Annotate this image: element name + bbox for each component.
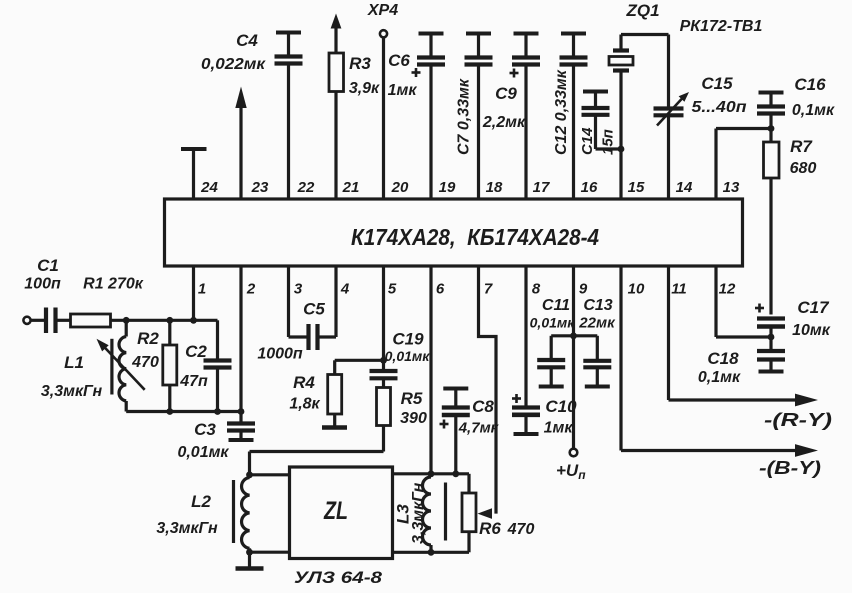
svg-text:22: 22 <box>297 179 315 196</box>
svg-text:2,2мк: 2,2мк <box>482 114 526 131</box>
C6 value label <box>388 51 418 99</box>
svg-text:С17: С17 <box>797 298 830 317</box>
svg-text:0,1мк: 0,1мк <box>698 369 741 386</box>
terminal bar on pin 24 <box>181 147 207 151</box>
C17 value label <box>792 298 831 339</box>
svg-text:47п: 47п <box>179 373 208 390</box>
svg-text:R1 270к: R1 270к <box>83 276 144 293</box>
svg-text:R6: R6 <box>479 519 501 538</box>
capacitor C17 (electrolytic) <box>755 304 785 338</box>
inductor L1 (tunable) <box>97 320 145 411</box>
pin 13 wire <box>716 129 771 200</box>
pin 12 wire <box>716 266 771 337</box>
wire tank top rail <box>111 319 218 322</box>
wire L2 top to ZL <box>250 473 290 476</box>
svg-text:0,01мк: 0,01мк <box>385 348 431 364</box>
inductor L2 <box>234 475 250 552</box>
pin 10 wire / output -(B-Y) <box>621 266 821 478</box>
pin 23 wire with arrow <box>235 87 246 200</box>
svg-text:1мк: 1мк <box>388 82 418 99</box>
pin 6 wire <box>429 266 432 474</box>
ground R4 <box>322 425 347 430</box>
capacitor C18 <box>757 337 785 372</box>
capacitor C11 <box>537 336 565 387</box>
svg-text:1000п: 1000п <box>257 346 303 363</box>
node L3 bottom <box>428 549 435 556</box>
svg-text:470: 470 <box>131 354 159 371</box>
svg-text:R3: R3 <box>349 54 371 73</box>
wire junction to R4 <box>335 360 384 374</box>
C14 value label (vertical) <box>579 127 617 155</box>
svg-text:2: 2 <box>246 281 256 298</box>
svg-text:ХР4: ХР4 <box>367 2 398 19</box>
C11 value label <box>530 297 576 331</box>
power terminal +Un <box>556 449 586 482</box>
node L2 top <box>246 471 253 478</box>
svg-text:12: 12 <box>719 281 736 298</box>
op-amp U1 IC body К174ХА28 <box>165 199 743 266</box>
capacitor C15 (variable) <box>654 35 690 200</box>
svg-text:390: 390 <box>400 410 427 427</box>
svg-text:0,01мк: 0,01мк <box>530 315 576 331</box>
svg-text:22мк: 22мк <box>578 315 616 332</box>
crystal ZQ1 <box>609 35 633 200</box>
svg-text:3,3мкГн: 3,3мкГн <box>156 520 218 537</box>
capacitor C3 <box>227 424 255 441</box>
svg-text:-(B-Y): -(B-Y) <box>759 458 821 478</box>
svg-text:5: 5 <box>388 281 397 298</box>
capacitor C7 <box>465 34 493 200</box>
pin 1 wire <box>192 266 195 320</box>
svg-text:С7 0,33мк: С7 0,33мк <box>456 78 473 155</box>
resistor R5 <box>377 378 391 425</box>
capacitor C9 (electrolytic) <box>510 34 541 200</box>
pin 22 wire <box>287 64 290 200</box>
resistor R2 <box>163 320 177 411</box>
svg-text:R5: R5 <box>401 389 423 408</box>
svg-text:3,9к: 3,9к <box>349 80 380 97</box>
pin 3 wire <box>289 266 309 337</box>
node L1 top <box>123 317 130 324</box>
pin 4 wire <box>318 266 337 337</box>
svg-text:С13: С13 <box>583 297 612 314</box>
wire L2 bottom to ZL <box>250 551 290 554</box>
wire C14 to pin 15 <box>596 147 622 150</box>
R5 value label <box>400 389 427 427</box>
C9 value label <box>482 84 526 131</box>
node C2 bottom <box>214 408 221 415</box>
svg-text:С16: С16 <box>794 75 826 94</box>
resistor R4 <box>328 375 342 427</box>
C3 value label <box>177 420 229 461</box>
node pin 9 / C11 / C13 <box>570 332 577 339</box>
svg-text:С2: С2 <box>185 342 207 361</box>
wire input to C1 <box>31 319 46 322</box>
L2 value label <box>156 492 218 537</box>
capacitor C5 <box>309 324 318 350</box>
svg-text:ZL: ZL <box>323 497 348 525</box>
svg-text:0,1мк: 0,1мк <box>792 102 835 119</box>
svg-text:С8: С8 <box>472 397 494 416</box>
C16 value label <box>792 75 835 119</box>
svg-text:1: 1 <box>198 281 206 298</box>
inductor L3 <box>423 474 446 553</box>
svg-text:15: 15 <box>628 179 645 196</box>
svg-text:ZQ1: ZQ1 <box>625 1 659 20</box>
svg-text:С5: С5 <box>303 300 325 319</box>
resistor R6 <box>462 493 476 552</box>
R2 value label <box>131 329 159 371</box>
svg-text:20: 20 <box>391 179 409 196</box>
svg-text:9: 9 <box>579 281 588 298</box>
wire right rail ZL to R6 top <box>393 474 469 493</box>
svg-text:14: 14 <box>676 179 693 196</box>
svg-text:16: 16 <box>581 179 598 196</box>
svg-text:С4: С4 <box>236 31 258 50</box>
capacitor C8 (electrolytic) <box>440 389 470 474</box>
L1 value label <box>41 353 103 400</box>
pin 9 wire <box>572 266 575 449</box>
node pin15/C14 junction <box>618 146 625 153</box>
svg-text:С19: С19 <box>392 330 424 349</box>
capacitor C4 <box>275 33 303 64</box>
svg-text:680: 680 <box>790 160 817 177</box>
svg-text:С11: С11 <box>542 297 570 314</box>
svg-text:С6: С6 <box>388 51 410 70</box>
pin 5 wire <box>382 266 385 371</box>
input terminal <box>23 317 30 324</box>
svg-text:С1: С1 <box>37 256 59 275</box>
resistor R7 <box>764 129 780 315</box>
R6 value label <box>479 519 534 538</box>
svg-text:3: 3 <box>294 281 303 298</box>
svg-text:15п: 15п <box>600 129 617 155</box>
node L2 bottom <box>246 549 253 556</box>
C18 value label <box>698 349 741 386</box>
delay line ZL <box>290 467 393 559</box>
svg-text:470: 470 <box>507 521 535 538</box>
svg-text:С12 0,33мк: С12 0,33мк <box>553 69 570 155</box>
svg-text:С18: С18 <box>707 349 739 368</box>
resistor R1 <box>71 314 111 327</box>
svg-text:0,022мк: 0,022мк <box>201 56 266 73</box>
svg-text:5...40п: 5...40п <box>692 99 747 116</box>
capacitor C10 (electrolytic) <box>512 266 540 434</box>
C19 value label <box>385 330 431 365</box>
C13 value label <box>578 297 616 332</box>
resistor R3 <box>329 14 344 200</box>
node R2 bottom <box>166 408 173 415</box>
svg-text:С14: С14 <box>579 127 596 155</box>
svg-text:3,3мкГн: 3,3мкГн <box>410 482 427 544</box>
capacitor C6 (electrolytic) <box>412 34 446 200</box>
capacitor C2 <box>204 320 232 411</box>
C1 value label <box>24 256 61 293</box>
svg-text:1,8к: 1,8к <box>289 396 320 413</box>
svg-text:13: 13 <box>723 179 740 196</box>
ZQ1 label <box>625 1 762 35</box>
node C8 bottom <box>452 470 459 477</box>
wire R5 to L2 top <box>250 426 384 475</box>
capacitor C1 <box>46 308 56 334</box>
C5 value label <box>257 300 325 363</box>
svg-text:3,3мкГн: 3,3мкГн <box>41 383 103 400</box>
svg-text:4,7мк: 4,7мк <box>458 420 500 437</box>
wire R6 bottom rail to ZL <box>393 551 469 554</box>
svg-text:100п: 100п <box>24 276 61 293</box>
node C17/C18/pin12 <box>768 334 775 341</box>
ground L2 <box>236 552 264 568</box>
capacitor C14 <box>582 92 610 150</box>
svg-text:17: 17 <box>533 179 550 196</box>
svg-text:С15: С15 <box>701 74 733 93</box>
C4 value label <box>201 31 266 73</box>
R3 value label <box>349 54 380 97</box>
pin 24 wire <box>192 150 195 199</box>
L3 value label (vertical) <box>394 482 428 544</box>
C2 value label <box>179 342 208 390</box>
svg-text:0,01мк: 0,01мк <box>177 444 229 461</box>
svg-text:21: 21 <box>342 179 360 196</box>
node C16/R7/pin13 <box>768 125 775 132</box>
svg-text:-(R-Y): -(R-Y) <box>764 410 832 430</box>
pin 11 wire / output -(R-Y) <box>669 266 833 430</box>
svg-text:R2: R2 <box>137 329 159 348</box>
svg-text:18: 18 <box>486 179 503 196</box>
wire tank bottom rail <box>126 410 241 413</box>
svg-text:10мк: 10мк <box>792 322 831 339</box>
svg-text:УЛЗ 64-8: УЛЗ 64-8 <box>294 568 383 587</box>
svg-text:R7: R7 <box>790 137 813 156</box>
svg-text:7: 7 <box>484 281 493 298</box>
capacitor C19 <box>370 371 398 378</box>
svg-text:С9: С9 <box>495 84 517 103</box>
C15 value label <box>692 74 747 116</box>
C8 value label <box>458 397 500 437</box>
pin 7 wire to R6 wiper <box>478 266 497 519</box>
svg-text:6: 6 <box>436 281 445 298</box>
node pin 2 / C3 junction <box>238 408 245 415</box>
svg-text:4: 4 <box>340 281 350 298</box>
capacitor C12 <box>560 34 588 200</box>
capacitor C16 <box>757 93 785 129</box>
svg-text:РК172-ТВ1: РК172-ТВ1 <box>680 18 763 35</box>
node R2 top <box>166 317 173 324</box>
svg-text:11: 11 <box>671 281 687 298</box>
wire ZQ1 top to pin 14 branch <box>621 33 669 36</box>
capacitor C13 <box>583 336 611 387</box>
wire C11-C13 rail <box>551 334 597 337</box>
R4 value label <box>289 373 320 413</box>
C10 value label <box>544 397 578 437</box>
svg-text:К174ХА28, КБ174ХА28-4: К174ХА28, КБ174ХА28-4 <box>351 224 599 250</box>
R7 value label <box>790 137 817 177</box>
node C19/R4 junction <box>380 357 387 364</box>
svg-text:L2: L2 <box>191 492 211 511</box>
svg-text:С3: С3 <box>194 420 216 439</box>
wire C1 to R1 <box>56 319 71 322</box>
svg-text:23: 23 <box>251 179 269 196</box>
connector XP4 <box>367 2 398 199</box>
svg-text:1мк: 1мк <box>544 420 574 437</box>
pin 2 wire <box>239 266 242 424</box>
svg-text:19: 19 <box>439 179 456 196</box>
svg-text:24: 24 <box>200 179 218 196</box>
svg-text:8: 8 <box>532 281 541 298</box>
svg-text:L1: L1 <box>64 353 84 372</box>
node pin 1 junction <box>190 317 197 324</box>
svg-text:10: 10 <box>628 281 645 298</box>
svg-text:R4: R4 <box>293 373 315 392</box>
node pin6/L3 top <box>428 470 435 477</box>
